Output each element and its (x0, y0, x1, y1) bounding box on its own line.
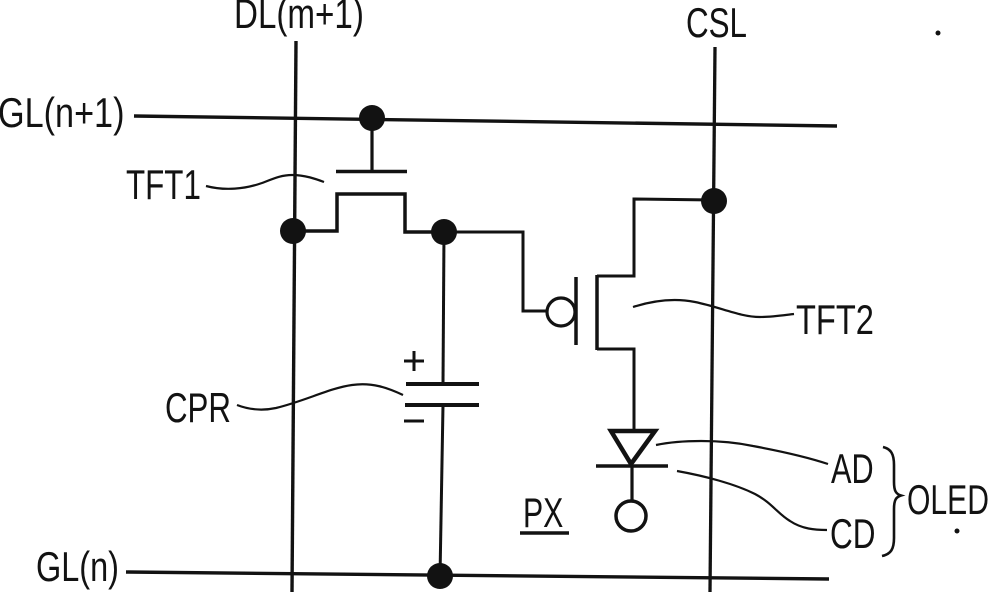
capacitor CPR bottom plate (405, 403, 479, 407)
svg-text:DL(m+1): DL(m+1) (234, 0, 364, 38)
underline of PX (520, 531, 569, 535)
svg-text:GL(n+1): GL(n+1) (0, 90, 124, 137)
OLED cathode terminal circle (616, 501, 646, 531)
svg-text:AD: AD (831, 445, 874, 492)
transistor TFT1 channel (293, 194, 444, 232)
transistor TFT2 gate circle (547, 298, 575, 326)
junction node right of TFT1 (storage node) (431, 219, 457, 245)
transistor TFT1 gate bar (336, 170, 407, 174)
junction dot on CSL (701, 188, 727, 214)
svg-text:CSL: CSL (686, 0, 747, 46)
speck top right (936, 31, 941, 36)
svg-text:PX: PX (523, 489, 563, 536)
capacitor CPR plus sign (404, 360, 424, 363)
leader line CPR (237, 384, 403, 409)
svg-text:CD: CD (830, 510, 875, 558)
junction dot on GL(n) (427, 563, 453, 589)
wire TFT2 drain to CSL (597, 199, 714, 276)
leader line AD (656, 441, 828, 464)
wire TFT1 gate lead (370, 118, 373, 170)
leader line CD (677, 471, 827, 530)
svg-text:TFT2: TFT2 (796, 296, 874, 343)
svg-text:CPR: CPR (165, 383, 231, 431)
wire TFT2 source to OLED (597, 349, 634, 431)
speck near OLED label (955, 529, 960, 534)
leader line TFT1 (206, 175, 324, 189)
wire storage node to TFT2 gate (444, 232, 548, 311)
transistor TFT2 gate bar (574, 277, 578, 345)
wire common supply line CSL vertical (710, 47, 715, 592)
diode OLED cathode bar CD (596, 464, 668, 468)
svg-text:OLED: OLED (907, 476, 989, 523)
transistor TFT2 channel (595, 275, 599, 350)
leader line TFT2 (633, 300, 794, 317)
wire cathode lead (630, 466, 633, 501)
svg-text:TFT1: TFT1 (126, 160, 201, 208)
wire gate line GL(n+1) horizontal (134, 116, 837, 126)
diode OLED anode triangle AD (611, 431, 655, 464)
capacitor CPR top plate (406, 382, 479, 386)
wire storage node to capacitor top plate (443, 232, 444, 384)
wire gate line GL(n) horizontal (126, 572, 829, 579)
wire capacitor bottom plate to GL(n) (440, 405, 443, 577)
junction node left of TFT1 on DL (280, 218, 306, 244)
capacitor CPR minus sign (404, 420, 424, 423)
svg-text:GL(n): GL(n) (36, 543, 119, 590)
brace for OLED (882, 447, 901, 556)
wire data line DL(m+1) vertical (292, 41, 296, 592)
junction dot on GL(n+1) at TFT1 gate (359, 105, 385, 131)
